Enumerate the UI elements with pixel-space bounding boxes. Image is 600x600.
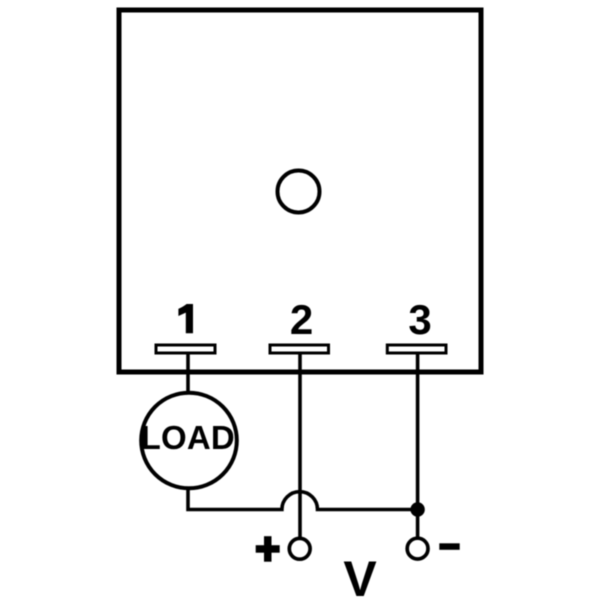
load LOAD	[141, 393, 237, 489]
indicator circle	[278, 171, 320, 213]
terminal 1	[156, 345, 215, 353]
pin label 1	[178, 304, 193, 333]
svg-text:LOAD: LOAD	[141, 419, 235, 456]
minus sign	[439, 543, 459, 550]
device box U1	[119, 10, 481, 372]
junction dot	[410, 502, 424, 516]
svg-text:V: V	[343, 551, 377, 600]
terminal 3	[387, 345, 446, 353]
svg-text:2: 2	[290, 296, 313, 343]
wire terminal1 to LOAD	[186, 355, 190, 393]
minus terminal circle	[407, 538, 428, 559]
plus sign	[256, 536, 280, 562]
wire LOAD bottom to junction with hop over wire 2	[188, 489, 418, 510]
wire terminal2 to plus terminal	[298, 355, 302, 538]
terminal 2	[270, 345, 329, 353]
wire terminal3 to minus terminal	[416, 355, 420, 538]
plus terminal circle	[289, 538, 310, 559]
svg-text:3: 3	[408, 296, 431, 343]
